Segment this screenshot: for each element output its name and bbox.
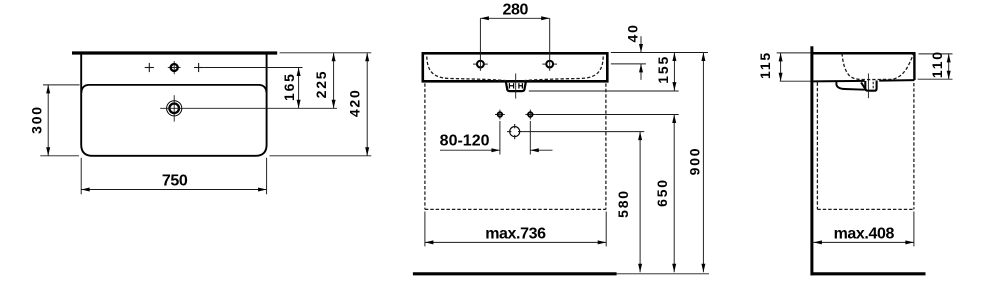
side trap centerline bbox=[867, 74, 869, 99]
front trap extension line bbox=[529, 90, 679, 92]
dim 580 line bbox=[638, 132, 642, 273]
dim 280 line bbox=[480, 16, 549, 20]
side slab front edge bbox=[913, 53, 915, 80]
front drain target extension line bbox=[522, 131, 644, 133]
svg-text:300: 300 bbox=[28, 105, 44, 134]
plan slab outline bbox=[81, 53, 266, 156]
dim 165 line bbox=[297, 68, 301, 109]
side floor thick line bbox=[811, 272, 926, 275]
svg-text:max.736: max.736 bbox=[485, 226, 546, 243]
dim max.736 line bbox=[425, 240, 606, 244]
svg-text:280: 280 bbox=[503, 2, 529, 19]
svg-text:225: 225 bbox=[313, 70, 329, 99]
plan bottom extension line right bbox=[270, 155, 372, 157]
dim 650 line bbox=[672, 115, 676, 273]
dim max.408 extension line bbox=[913, 212, 915, 247]
side trap hidden dashed line bbox=[872, 82, 874, 90]
dim 80-120 line bbox=[440, 148, 553, 152]
side slab bottom edge bbox=[813, 80, 914, 81]
svg-text:80-120: 80-120 bbox=[440, 133, 490, 150]
dim 750 line bbox=[81, 188, 266, 192]
side slab top edge bbox=[811, 52, 916, 55]
side bowl hidden dashed profile bbox=[842, 53, 913, 79]
svg-text:900: 900 bbox=[687, 147, 703, 176]
front fixing hole extension line bbox=[535, 114, 679, 116]
dim 115 extension lines bbox=[777, 52, 811, 54]
svg-text:580: 580 bbox=[615, 189, 631, 218]
dim 155 line bbox=[672, 53, 676, 91]
svg-text:40: 40 bbox=[625, 23, 641, 42]
dim max.408 line bbox=[813, 240, 914, 244]
svg-text:max.408: max.408 bbox=[834, 226, 895, 243]
side wall line bbox=[810, 46, 813, 275]
svg-text:750: 750 bbox=[162, 172, 188, 189]
svg-text:165: 165 bbox=[281, 72, 297, 101]
plan drain extension line bbox=[160, 107, 337, 109]
dim 300 extension lines bbox=[43, 84, 80, 86]
dim 115 line bbox=[779, 53, 783, 81]
front right faucet hole bbox=[542, 61, 557, 68]
svg-text:115: 115 bbox=[757, 51, 773, 79]
front floor thin extension bbox=[617, 273, 709, 275]
svg-text:155: 155 bbox=[655, 55, 671, 84]
front cabinet dashed outline bbox=[425, 83, 606, 209]
front trap inner fitting marks bbox=[509, 83, 522, 88]
plan drain bbox=[167, 95, 182, 121]
side bowl underside wedge bbox=[836, 81, 864, 89]
plan left plus mark bbox=[145, 63, 154, 72]
dim 900 line bbox=[701, 53, 705, 273]
dim max.736 extension lines bbox=[424, 212, 426, 247]
side bowl outlet diagonal bbox=[861, 82, 865, 88]
plan bowl rim top edge bbox=[81, 85, 266, 93]
front floor thick line bbox=[413, 272, 617, 275]
dim 280 extension lines bbox=[479, 18, 481, 71]
dim 300 line bbox=[46, 85, 50, 156]
front left faucet hole bbox=[473, 61, 488, 68]
plan faucet hole bbox=[168, 61, 181, 74]
plan right plus mark bbox=[194, 63, 203, 72]
dim 225 line bbox=[332, 53, 336, 109]
side cabinet dashed outline bbox=[817, 83, 914, 210]
dim 80-120 extension lines bbox=[499, 121, 501, 155]
dim 750 extension lines bbox=[80, 158, 82, 195]
plan back edge thick line bbox=[72, 51, 277, 54]
front trap centerline bbox=[515, 73, 517, 98]
dim 420 line bbox=[365, 53, 369, 156]
front drain target symbol bbox=[507, 124, 522, 139]
svg-text:110: 110 bbox=[929, 50, 945, 78]
front slab outline bbox=[423, 53, 608, 81]
dim 40 bbox=[639, 36, 643, 80]
front top extension line right bbox=[611, 52, 708, 54]
front trap outline bbox=[506, 82, 526, 91]
svg-text:420: 420 bbox=[346, 88, 362, 117]
dim 110 extension lines bbox=[919, 53, 953, 55]
front faucet row extension line right bbox=[611, 63, 646, 65]
front left fixing hole bbox=[495, 110, 505, 120]
dim 110 line bbox=[947, 54, 951, 79]
front right fixing hole bbox=[525, 110, 535, 120]
plan top extension line right bbox=[280, 52, 372, 54]
svg-text:650: 650 bbox=[654, 178, 670, 207]
front bowl hidden dashed line bbox=[427, 57, 603, 81]
side trap cup bbox=[865, 81, 876, 91]
plan faucet extension line bbox=[203, 67, 302, 69]
